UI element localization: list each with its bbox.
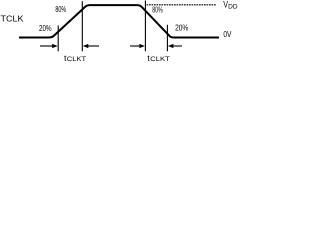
svg-text:CLKT: CLKT xyxy=(67,56,86,63)
svg-text:80%: 80% xyxy=(55,4,66,14)
node VDD dashed reference line xyxy=(147,4,217,6)
node rising 20% tick xyxy=(57,26,59,52)
svg-text:CLKT: CLKT xyxy=(150,56,170,63)
node falling 20% tick xyxy=(166,25,168,52)
svg-text:DD: DD xyxy=(228,4,238,11)
node rising 80% tick xyxy=(81,1,83,51)
wire TCLK waveform xyxy=(19,5,219,37)
svg-text:TCLK: TCLK xyxy=(1,14,24,24)
wire falling tCLKT left arrow xyxy=(130,44,145,48)
svg-text:20%: 20% xyxy=(175,24,188,33)
wire rising tCLKT right arrow xyxy=(83,44,99,48)
svg-text:0V: 0V xyxy=(223,30,231,39)
wire falling tCLKT right arrow xyxy=(168,44,182,48)
svg-text:80%: 80% xyxy=(152,6,162,15)
wire rising tCLKT left arrow xyxy=(40,44,58,48)
node falling 80% tick xyxy=(144,1,146,52)
svg-text:20%: 20% xyxy=(39,24,52,33)
